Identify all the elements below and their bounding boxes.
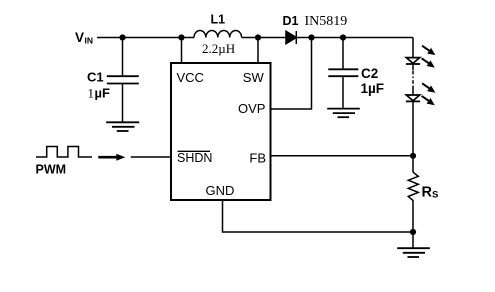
resistor Rs bbox=[408, 172, 418, 205]
wire L1 to diode D1 bbox=[242, 37, 286, 39]
svg-text:IN5819: IN5819 bbox=[305, 14, 348, 29]
svg-text:µF: µF bbox=[95, 86, 110, 101]
junction dot SW tap bbox=[255, 34, 261, 40]
label Rs bbox=[422, 185, 439, 201]
wire D1 to LED string corner bbox=[296, 37, 413, 39]
PWM square wave symbol bbox=[36, 147, 92, 158]
svg-text:R: R bbox=[422, 185, 433, 201]
wire top rail corner down to LED1 bbox=[412, 38, 414, 58]
svg-text:GND: GND bbox=[206, 183, 235, 198]
svg-text:S: S bbox=[432, 190, 438, 201]
wire SW stub bbox=[257, 38, 259, 64]
svg-text:PWM: PWM bbox=[36, 163, 67, 177]
svg-text:FB: FB bbox=[249, 150, 266, 165]
ground (C1) bbox=[106, 122, 139, 131]
svg-text:C1: C1 bbox=[87, 70, 104, 85]
ground (C2) bbox=[327, 109, 360, 118]
svg-text:V: V bbox=[75, 30, 84, 45]
diode D1 bbox=[286, 31, 296, 43]
svg-text:1µF: 1µF bbox=[361, 81, 385, 96]
capacitor C2 bbox=[328, 38, 358, 108]
IC U1 box bbox=[171, 63, 271, 200]
value 1µF (C1) bbox=[88, 86, 110, 101]
svg-text:1: 1 bbox=[88, 86, 95, 101]
wire GND pin to output ground node bbox=[223, 200, 414, 232]
junction dot OVP tap bbox=[308, 34, 314, 40]
wire OVP to top rail bbox=[271, 38, 312, 110]
wire VCC stub bbox=[181, 38, 183, 64]
svg-text:IN: IN bbox=[85, 36, 94, 46]
svg-text:D1: D1 bbox=[283, 14, 299, 28]
junction dot VCC tap bbox=[178, 34, 184, 40]
pin label SHDN with overline bbox=[177, 151, 212, 165]
capacitor C1 bbox=[107, 38, 139, 122]
svg-text:SW: SW bbox=[243, 70, 265, 85]
svg-text:C2: C2 bbox=[361, 66, 378, 81]
arrow PWM input bbox=[98, 154, 125, 161]
wire PWM arrow to SHDN pin bbox=[131, 156, 171, 158]
wire Rs to ground node bbox=[412, 205, 414, 248]
ground (output) bbox=[397, 248, 430, 257]
LED D3 (bottom) bbox=[406, 83, 436, 105]
wire FB pin to Rs node bbox=[271, 155, 414, 157]
junction dot FB node bbox=[410, 153, 416, 159]
svg-text:VCC: VCC bbox=[177, 70, 204, 85]
junction dot C1 tap bbox=[119, 34, 125, 40]
junction dot output ground node bbox=[410, 229, 416, 235]
svg-text:L1: L1 bbox=[211, 13, 226, 27]
svg-text:2.2µH: 2.2µH bbox=[202, 41, 235, 56]
junction dot C2 tap bbox=[340, 34, 346, 40]
wire top rail from VIN to L1 bbox=[97, 37, 194, 39]
wire dotted LED string continuation bbox=[412, 64, 414, 70]
LED D2 (top) bbox=[406, 46, 436, 68]
svg-text:OVP: OVP bbox=[238, 101, 265, 116]
wire LED2 down to Rs bbox=[412, 101, 414, 172]
inductor L1 bbox=[194, 30, 242, 37]
svg-text:SHDN: SHDN bbox=[177, 151, 212, 165]
node VIN label bbox=[75, 30, 93, 46]
